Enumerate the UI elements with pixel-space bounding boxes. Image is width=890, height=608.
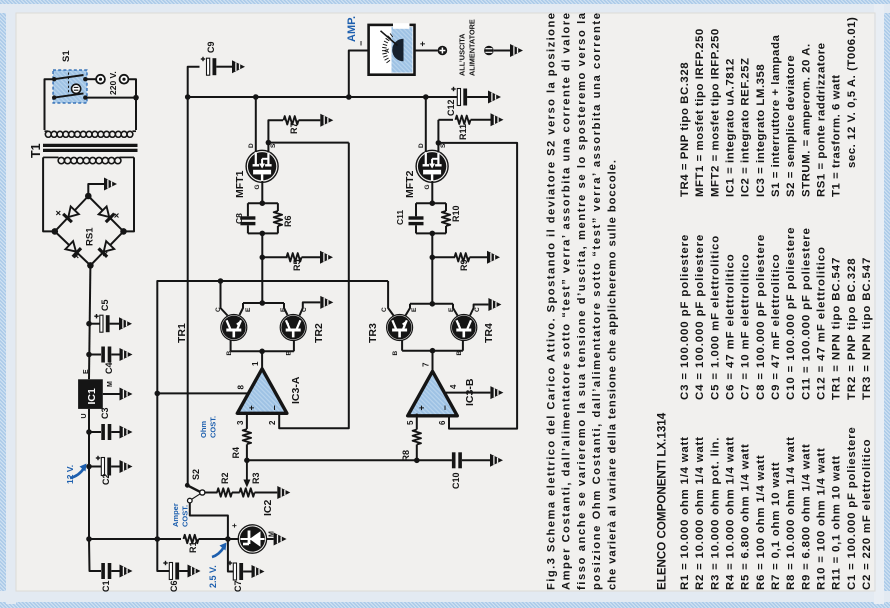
ground C3 <box>120 426 133 439</box>
svg-text:7: 7 <box>422 362 431 367</box>
wire R3 to ground <box>255 492 278 494</box>
ground C6 <box>188 565 201 578</box>
transistor TR1 <box>222 316 245 339</box>
svg-text:C12 = 47 mF elettrolitico: C12 = 47 mF elettrolitico <box>816 246 828 400</box>
svg-text:RS1: RS1 <box>85 227 96 246</box>
svg-text:Fig.3 Schema elettrico del Car: Fig.3 Schema elettrico del Carico Attivo… <box>546 13 558 590</box>
integrated circuit IC1 <box>78 379 103 409</box>
wire S1 left to transformer primary left <box>45 79 55 130</box>
svg-text:220 V.: 220 V. <box>108 71 118 95</box>
resistor R7 <box>284 116 321 124</box>
node C3 tap <box>86 429 92 435</box>
wire TR4 collector to ground <box>470 305 488 316</box>
svg-text:12 V.: 12 V. <box>65 465 75 484</box>
svg-text:C: C <box>474 307 481 312</box>
emitter rail ch1 <box>243 302 284 304</box>
svg-text:TR1 = NPN tipo BC.547: TR1 = NPN tipo BC.547 <box>831 257 843 400</box>
ground IC2 <box>274 533 287 546</box>
wire bus to meter <box>349 51 369 98</box>
svg-text:R2 = 10.000 ohm 1/4 watt: R2 = 10.000 ohm 1/4 watt <box>694 436 706 590</box>
wire MFT1 drain <box>255 97 257 153</box>
svg-text:E: E <box>280 307 287 312</box>
wire S2 amper contact to 2.5V node <box>190 503 228 539</box>
svg-text:TR3 = NPN tipo BC.547: TR3 = NPN tipo BC.547 <box>861 257 873 400</box>
svg-text:IC2 = integrato REF.25Z: IC2 = integrato REF.25Z <box>740 57 752 197</box>
wire gate chain down ch2 <box>431 233 433 303</box>
wire MFT2 drain <box>425 97 427 153</box>
ground C4 <box>120 348 133 361</box>
svg-text:C9 = 47 mF elettrolitico: C9 = 47 mF elettrolitico <box>770 253 782 400</box>
wire TR4 base <box>462 340 464 351</box>
svg-text:E: E <box>448 307 455 312</box>
mosfet MFT1 <box>248 152 276 180</box>
svg-text:R4 = 10.000 ohm 1/4 watt: R4 = 10.000 ohm 1/4 watt <box>725 436 737 590</box>
svg-text:A: A <box>384 48 391 53</box>
capacitor C7 <box>228 561 252 580</box>
op-amp IC3-A <box>237 369 287 414</box>
wire C9 branch <box>188 67 200 97</box>
page edge tint bottom <box>0 591 890 602</box>
wire S2 common to R2 <box>205 492 218 494</box>
svg-text:−: − <box>270 405 280 410</box>
svg-text:R6: R6 <box>283 215 293 227</box>
node gate C11 bottom <box>430 231 436 237</box>
wire R11 <box>438 119 453 121</box>
svg-text:S2: S2 <box>191 469 201 480</box>
svg-text:ALIMENTATORE: ALIMENTATORE <box>468 19 477 76</box>
transistor TR3 <box>388 316 411 339</box>
feedback wire MFT2 source to IC3-B pin6 <box>438 143 517 429</box>
svg-text:IC2: IC2 <box>262 500 274 517</box>
wire terminal 2 to transformer primary right <box>128 79 136 130</box>
ground C10 <box>490 454 503 467</box>
svg-text:COST.: COST. <box>209 416 218 438</box>
transistor TR4 <box>452 316 475 339</box>
wire to C5 <box>89 323 100 325</box>
potentiometer R3 <box>240 461 255 497</box>
main positive bus <box>188 96 458 98</box>
svg-text:1: 1 <box>251 361 260 366</box>
svg-text:IC3-A: IC3-A <box>290 376 302 404</box>
svg-text:R6 = 100 ohm 1/4 watt: R6 = 100 ohm 1/4 watt <box>755 454 767 590</box>
capacitor C8 <box>240 203 255 233</box>
svg-text:IC1 = integrato uA.7812: IC1 = integrato uA.7812 <box>725 58 737 197</box>
svg-text:R7: R7 <box>289 122 299 134</box>
node R7 tap <box>266 140 272 146</box>
svg-text:MFT1 = mosfet tipo IRFP.250: MFT1 = mosfet tipo IRFP.250 <box>694 28 706 197</box>
border hatch right <box>884 0 890 608</box>
control line to IC3-B <box>247 459 452 461</box>
page edge tint top <box>0 4 890 13</box>
svg-text:IC3 = integrato LM.358: IC3 = integrato LM.358 <box>755 64 767 197</box>
arrow 12V <box>70 468 84 478</box>
ground R11 <box>491 113 504 126</box>
svg-text:AMP.: AMP. <box>346 16 358 42</box>
wire C7 branch <box>228 539 233 572</box>
ground R3 <box>277 486 290 499</box>
capacitor C5 <box>94 314 119 332</box>
capacitor C2 <box>96 456 120 476</box>
integrated circuit IC2 <box>238 525 266 553</box>
wire IC3-A pin 8 <box>157 392 249 394</box>
svg-text:C4 = 100.000 pF poliestere: C4 = 100.000 pF poliestere <box>694 234 706 400</box>
wire IC1 U down to rail <box>88 409 90 539</box>
output terminal plus <box>438 46 448 56</box>
wire C1 branch <box>89 539 101 571</box>
wire TR2 collector to ground <box>300 302 321 315</box>
wire IC3-A output pin1 <box>261 351 263 369</box>
wire MFT2 gate <box>431 181 433 203</box>
transformer T1 primary winding <box>45 131 137 137</box>
svg-text:C: C <box>215 307 222 312</box>
svg-text:C11: C11 <box>395 210 405 225</box>
component list column 3 <box>679 17 858 197</box>
node bus-left <box>185 94 191 100</box>
ground R5 <box>320 251 333 264</box>
transistor TR2 <box>282 316 305 339</box>
svg-text:C: C <box>381 307 388 312</box>
ground C7 <box>252 565 265 578</box>
svg-text:STRUM. = amperom. 20 A.: STRUM. = amperom. 20 A. <box>800 43 812 197</box>
svg-text:U: U <box>81 413 88 418</box>
svg-text:C8 = 100.000 pF poliestere: C8 = 100.000 pF poliestere <box>755 234 767 400</box>
svg-text:R3: R3 <box>251 472 261 484</box>
switch S2 <box>185 483 205 503</box>
border hatch left <box>0 0 6 608</box>
node emitter rail ch2 <box>430 301 436 307</box>
node MFT2 source <box>436 140 442 146</box>
wire IC2 to ground <box>267 538 274 540</box>
capacitor C3 <box>101 424 119 440</box>
wire C6 branch <box>157 539 169 571</box>
svg-text:C10: C10 <box>451 472 461 489</box>
svg-text:R9: R9 <box>459 259 469 271</box>
node C4 tap <box>86 352 92 358</box>
wire MFT1 source <box>268 143 348 153</box>
svg-text:R8: R8 <box>401 450 411 462</box>
svg-text:C6: C6 <box>169 580 179 592</box>
capacitor C12 <box>451 87 488 106</box>
node C2 tap <box>86 464 92 470</box>
svg-text:R10 = 100 ohm 1/4 watt: R10 = 100 ohm 1/4 watt <box>816 447 828 590</box>
node gate C8 bottom <box>260 231 266 237</box>
ground output <box>510 44 523 57</box>
ground IC1 M <box>120 388 133 401</box>
ground C1 <box>120 565 133 578</box>
svg-text:C5: C5 <box>100 299 110 311</box>
ground TR2 <box>320 296 333 309</box>
wire terminal minus to ground <box>494 50 510 52</box>
node R8 control <box>414 458 420 464</box>
svg-text:C6 = 47 mF elettrolitico: C6 = 47 mF elettrolitico <box>725 253 737 400</box>
parallel group C11 R10 bottom rail <box>416 232 446 234</box>
svg-text:C2: C2 <box>101 473 111 485</box>
svg-text:R1 = 10.000 ohm 1/4 watt: R1 = 10.000 ohm 1/4 watt <box>679 436 691 590</box>
border hatch top <box>0 0 890 4</box>
svg-text:che varierà al variare della t: che varierà al variare della tensione ch… <box>606 160 618 590</box>
wire pin 3 to R4 <box>246 413 248 429</box>
wire bridge top node to ground <box>88 184 104 196</box>
node bases ch1 <box>259 349 265 355</box>
capacitor C9 <box>201 57 232 75</box>
resistor R6 <box>274 203 282 233</box>
wire to C3 <box>89 431 101 433</box>
wire R5 <box>262 256 287 258</box>
node gate C11 top <box>430 200 436 206</box>
svg-text:TR4: TR4 <box>483 323 495 343</box>
lamp inside S1 <box>72 84 81 93</box>
wire gate chain down <box>261 233 263 303</box>
wire to C4 <box>89 354 101 356</box>
emitter rail ch2 <box>410 303 453 305</box>
ground TR4 <box>488 298 501 311</box>
svg-text:+: + <box>417 405 427 410</box>
svg-text:TR2: TR2 <box>313 323 325 343</box>
svg-text:5: 5 <box>406 420 415 425</box>
wire S1 to terminal 1 <box>85 78 96 80</box>
ground C2 <box>120 460 133 473</box>
wire R9 <box>432 256 455 258</box>
node S1 lower <box>133 95 139 101</box>
svg-text:E: E <box>245 307 252 312</box>
wire secondary right to bridge <box>124 157 135 231</box>
node gate C8 top <box>260 200 266 206</box>
svg-text:C9: C9 <box>206 41 216 53</box>
node IC1 output rail <box>86 536 92 542</box>
svg-text:C5 = 1.000 mF elettrolitico: C5 = 1.000 mF elettrolitico <box>709 235 721 400</box>
ground C12 <box>488 91 501 104</box>
svg-text:C3: C3 <box>100 407 110 419</box>
transformer T1 core <box>43 145 138 150</box>
arrow 2.5V <box>212 547 224 557</box>
node R9 tap <box>430 254 436 260</box>
svg-text:−: − <box>440 405 450 410</box>
node MFT2 drain <box>423 94 429 100</box>
svg-text:COST.: COST. <box>181 505 190 527</box>
transformer T1 secondary winding <box>43 157 134 163</box>
svg-text:E: E <box>411 307 418 312</box>
wire TR3 collector <box>388 281 393 316</box>
wire TR2 base <box>293 340 295 351</box>
border hatch bottom <box>0 602 890 608</box>
capacitor C11 <box>409 203 424 233</box>
svg-text:G: G <box>254 184 261 189</box>
svg-text:C10 = 100.000 pF poliestere: C10 = 100.000 pF poliestere <box>785 227 797 400</box>
wire IC3-B output pin7 <box>432 351 434 372</box>
svg-text:C2 = 220 mF elettrolitico: C2 = 220 mF elettrolitico <box>861 439 873 590</box>
wire to IC2 <box>228 538 239 540</box>
wire pin 5 to R8 <box>416 414 418 430</box>
svg-text:R4: R4 <box>231 447 241 459</box>
svg-text:S2 = semplice deviatore: S2 = semplice deviatore <box>785 55 797 197</box>
svg-text:Ohm: Ohm <box>199 421 208 438</box>
wire secondary left to bridge <box>43 157 55 231</box>
svg-text:4: 4 <box>449 384 458 389</box>
svg-text:R11 = 0,1 ohm 10 watt: R11 = 0,1 ohm 10 watt <box>831 455 843 590</box>
bases rail ch1 <box>231 350 294 352</box>
feedback wire MFT1 source to IC3-A pin2 <box>279 143 349 429</box>
wire long rail from bus to S2 <box>187 97 189 485</box>
wire R7 branch <box>268 120 283 142</box>
wire TR1 collector <box>221 281 228 316</box>
svg-text:C11 = 100.000 pF poliestere: C11 = 100.000 pF poliestere <box>800 227 812 400</box>
svg-text:ALL’USCITA: ALL’USCITA <box>458 33 467 76</box>
node C6 tap <box>155 536 161 542</box>
svg-text:3: 3 <box>236 420 245 425</box>
svg-text:+: + <box>247 405 257 410</box>
svg-text:MFT2: MFT2 <box>404 170 416 198</box>
ground C5 <box>119 317 132 330</box>
resistor R8 <box>413 430 421 461</box>
svg-text:C8: C8 <box>234 213 244 224</box>
svg-text:RS1 = ponte raddrizzatore: RS1 = ponte raddrizzatore <box>816 42 828 197</box>
wire R2 R3 <box>232 492 240 494</box>
ground bridge <box>104 178 117 191</box>
wire bridge to IC1 chain <box>89 266 90 380</box>
svg-text:+: + <box>418 41 428 46</box>
svg-text:C7 = 10 mF elettrolitico: C7 = 10 mF elettrolitico <box>740 253 752 400</box>
+12V distribution rail up <box>157 281 388 539</box>
svg-text:−: − <box>356 41 366 46</box>
svg-text:R9 = 6.800 ohm 1/4 watt: R9 = 6.800 ohm 1/4 watt <box>800 443 812 590</box>
svg-text:C3 = 100.000 pF poliestere: C3 = 100.000 pF poliestere <box>679 234 691 400</box>
wire TR4 emitter <box>453 304 458 316</box>
parallel group C11 R10 top rail <box>416 202 446 204</box>
svg-text:T1 = trasform. 6 watt: T1 = trasform. 6 watt <box>831 74 843 197</box>
wire MFT2 source <box>437 120 439 153</box>
resistor R9 <box>455 253 488 261</box>
wire pin 4 to ground <box>446 392 490 394</box>
node emitter rail ch1 <box>260 300 266 306</box>
node C5 tap <box>86 321 92 327</box>
node R4 wiper junction <box>244 458 250 464</box>
svg-text:D: D <box>248 143 255 148</box>
ground IC3-B pin4 <box>490 386 503 399</box>
resistor R10 <box>442 203 450 233</box>
node MFT1 drain <box>253 94 259 100</box>
svg-text:M: M <box>107 381 114 387</box>
component list column 2 <box>679 227 873 400</box>
wire TR3 base <box>401 340 403 351</box>
op-amp IC3-B <box>408 371 458 416</box>
node supply IC3 pin8 <box>155 391 161 397</box>
resistor R1 <box>184 535 228 543</box>
svg-text:IC1: IC1 <box>86 388 98 405</box>
svg-text:E: E <box>83 369 90 374</box>
svg-text:R7 = 0,1 ohm 10 watt: R7 = 0,1 ohm 10 watt <box>770 462 782 590</box>
ground C9 <box>232 60 245 73</box>
mosfet MFT2 <box>418 152 446 180</box>
svg-text:MFT1: MFT1 <box>234 170 246 198</box>
resistor R2 <box>217 488 232 496</box>
resistor R5 <box>287 253 321 261</box>
mains terminal 2 <box>120 75 129 84</box>
resistor R11 <box>456 116 491 124</box>
svg-text:R5: R5 <box>292 259 302 271</box>
wire meter plus to terminal <box>415 50 438 52</box>
svg-text:C1 = 100.000 pF poliestere: C1 = 100.000 pF poliestere <box>846 426 858 590</box>
wire TR1 base <box>230 340 232 351</box>
page edge tint left <box>6 4 16 604</box>
wire TR3 emitter <box>406 304 411 316</box>
svg-text:+: + <box>230 523 239 528</box>
svg-text:TR1: TR1 <box>176 323 188 343</box>
ground R7 <box>320 114 333 127</box>
wire TR2 emitter <box>284 303 288 315</box>
svg-text:TR3: TR3 <box>367 323 379 343</box>
svg-text:R11: R11 <box>458 124 468 140</box>
svg-text:B: B <box>392 351 399 356</box>
node 2.5V <box>225 536 231 542</box>
svg-text:R8 = 10.000 ohm 1/4 watt: R8 = 10.000 ohm 1/4 watt <box>785 436 797 590</box>
bases rail ch2 <box>402 350 463 352</box>
svg-text:S1: S1 <box>61 50 72 62</box>
page edge tint right <box>874 4 884 604</box>
node bases ch2 <box>430 348 436 354</box>
svg-text:C1: C1 <box>101 580 111 592</box>
svg-text:6: 6 <box>438 420 447 425</box>
label Amper COST. <box>171 503 190 527</box>
svg-text:TR2 = PNP tipo BC.328: TR2 = PNP tipo BC.328 <box>846 258 858 400</box>
wire TR1 emitter <box>240 303 244 315</box>
capacitor C1 <box>101 563 119 579</box>
wire IC1 M pin to ground <box>103 393 120 395</box>
svg-text:C7: C7 <box>233 580 243 592</box>
svg-text:fisso anche se varieremo la su: fisso anche se varieremo la sua tensione… <box>576 12 588 590</box>
svg-text:G: G <box>424 184 431 189</box>
output terminal minus <box>484 46 494 56</box>
switch S1 <box>52 70 88 103</box>
capacitor C4 <box>101 347 119 363</box>
label Ohm COST. <box>199 416 218 438</box>
svg-text:Amper Costanti, dall’alimentat: Amper Costanti, dall’alimentatore sotto … <box>561 13 573 590</box>
svg-text:R1: R1 <box>188 541 198 553</box>
svg-text:S1 = interruttore + lampada: S1 = interruttore + lampada <box>770 35 782 197</box>
node R5 tap <box>260 254 266 260</box>
svg-text:R3 = 10.000 ohm pot. lin.: R3 = 10.000 ohm pot. lin. <box>709 437 721 590</box>
capacitor C6 <box>163 561 187 580</box>
parallel group C8 R6 top rail <box>248 202 278 204</box>
svg-text:T1: T1 <box>29 143 43 158</box>
svg-text:R2: R2 <box>220 472 230 484</box>
svg-text:Amper: Amper <box>171 503 180 527</box>
svg-text:C4: C4 <box>104 362 114 374</box>
node TR1 collector <box>218 278 224 284</box>
svg-text:R10: R10 <box>451 205 461 222</box>
meter STRUM <box>369 23 415 74</box>
svg-text:2.5 V.: 2.5 V. <box>208 565 218 588</box>
svg-text:R5 = 6.800 ohm 1/4 watt: R5 = 6.800 ohm 1/4 watt <box>740 443 752 590</box>
wire S1 lower pole to node <box>85 97 136 99</box>
capacitor C10 <box>452 452 490 468</box>
caption Fig.3 <box>546 12 619 590</box>
svg-text:sec. 12 V. 0,5 A. (T006.01): sec. 12 V. 0,5 A. (T006.01) <box>846 17 858 168</box>
svg-text:D: D <box>418 143 425 148</box>
component list column 1 <box>679 426 873 590</box>
wire to C2 <box>89 466 101 468</box>
wire MFT1 gate <box>261 181 263 203</box>
parallel group C8 R6 bottom rail <box>248 232 278 234</box>
svg-text:TR4 = PNP tipo BC.328: TR4 = PNP tipo BC.328 <box>679 62 691 197</box>
wire +12V rail bottom <box>89 538 181 540</box>
svg-text:ELENCO COMPONENTI LX.1314: ELENCO COMPONENTI LX.1314 <box>656 412 669 590</box>
svg-text:2: 2 <box>268 420 277 425</box>
mains terminal 1 <box>96 75 105 84</box>
resistor R4 <box>243 429 251 460</box>
ground R9 <box>487 251 500 264</box>
svg-text:C12: C12 <box>446 99 456 116</box>
label ALL'USCITA ALIMENTATORE <box>458 19 477 76</box>
